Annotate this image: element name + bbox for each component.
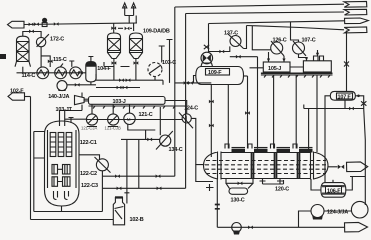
internals bed2 box [52, 165, 70, 175]
valve ticks downleg [215, 205, 220, 209]
vent arrow up 1 [123, 3, 127, 16]
valve column overhead [29, 30, 34, 34]
wire mid header y66 [104, 62, 130, 67]
wire 104-F bottom stub [90, 82, 92, 85]
wire bottle right vert [124, 139, 129, 203]
wire h-line y108.5 [304, 105, 364, 109]
wire 103-C stub [159, 46, 165, 63]
valve 137-C left [219, 50, 224, 54]
wire vent manifold [125, 16, 137, 24]
wire exch feed x296 [295, 75, 297, 149]
left head [204, 152, 222, 180]
column vessel top-left [17, 36, 30, 61]
wire right head outlet [328, 166, 338, 168]
svg-text:172-C: 172-C [50, 36, 64, 42]
nozzles box2 [314, 56, 324, 61]
wire exch feed x247 [247, 76, 249, 149]
compressor 103-J [89, 97, 166, 105]
turbine 103-JT [60, 93, 89, 111]
valves y188.3 [117, 187, 122, 191]
wire circle drops from 103-J [92, 104, 130, 114]
baffle 1 [252, 153, 254, 179]
wire line4 drop to 107-F [346, 31, 348, 92]
wire vert from line2 [185, 14, 187, 83]
arrow banner 4 [344, 27, 367, 33]
wire 104-F top stub [88, 57, 93, 62]
vent arrow up 2 [132, 3, 136, 16]
baseline hatch 103-J [89, 106, 186, 109]
exchanger 134-C [160, 135, 171, 146]
exchanger 107-C [293, 42, 305, 54]
wire pump left drop [299, 211, 312, 227]
wire feed 107-C [291, 22, 299, 42]
exchanger circle quench [96, 159, 108, 171]
wire 107-F bottom drop [344, 100, 346, 108]
pumpout circle [351, 201, 368, 218]
vessel 102-B bottle [113, 198, 124, 225]
exchanger 172-C [36, 37, 45, 46]
vessel 106-F [321, 183, 346, 198]
stub pipes on dome [69, 118, 74, 124]
arrow product top-left [8, 21, 25, 28]
wire vert x138 [138, 139, 140, 188]
top fin strip 1 [232, 148, 246, 153]
wire inlet pipes into dome [60, 111, 65, 127]
base bar 105-J [261, 72, 333, 74]
vessel 109-DA [108, 33, 121, 59]
wire h-line y82.9 [175, 82, 212, 84]
valve vessel A inlet [111, 26, 116, 30]
wire line y188.3 [102, 187, 185, 189]
wire right vert to pumpout circle [364, 109, 366, 206]
wire drop to vessel A [113, 23, 115, 33]
compressor 105-J box [263, 62, 290, 72]
vessel 104-F [86, 62, 96, 82]
vessel 109-F [196, 67, 244, 85]
compressor circle 121-CJA [86, 114, 97, 125]
wire shaft to dome [65, 118, 87, 120]
svg-text:137-C: 137-C [224, 30, 238, 36]
svg-text:102-B: 102-B [130, 217, 144, 223]
pump 140-J/JA [57, 81, 67, 91]
wire 124-C outlet to head loop [191, 118, 196, 164]
wire head bottom to 106-F [332, 180, 334, 183]
right head [311, 152, 329, 180]
leader 115-C [60, 64, 63, 67]
valve 140-J discharge [75, 83, 80, 87]
wire M bottom loop [128, 125, 156, 140]
wire 172-C down [40, 47, 42, 67]
wire exch left downleg [216, 180, 218, 228]
wire exch feed x211 [210, 85, 212, 158]
valve 109-DB outlet [134, 61, 139, 65]
valve X on 107-F feed [344, 62, 349, 67]
valve before 104-F [78, 71, 83, 75]
wire 107-C drops [299, 50, 318, 61]
wire 103-J suction [96, 87, 140, 89]
valve pair y82.9 [184, 81, 189, 85]
wire exch feed x228 [227, 85, 229, 149]
valve on header2 [126, 78, 131, 82]
wire v x308 down [308, 109, 310, 153]
tube bundle dashed [205, 161, 327, 174]
baffle 3 [298, 153, 300, 179]
wire bracket stubs [34, 132, 45, 159]
wire main top-left header [24, 23, 137, 25]
wire 137-C lower pipe [230, 56, 258, 58]
svg-text:134-C: 134-C [169, 147, 183, 153]
valve outlet [338, 165, 344, 169]
wire 109-DB outlet [135, 59, 137, 81]
svg-text:109-F: 109-F [208, 70, 222, 76]
wire 109-F left pipe [194, 76, 196, 83]
wire feed 126-C [252, 26, 270, 50]
vent stub above circle3 [69, 61, 74, 67]
top fin strip 3 [277, 148, 291, 153]
wire riser x103 [101, 171, 103, 212]
svg-text:130-C: 130-C [231, 197, 245, 203]
svg-text:106-F: 106-F [327, 188, 341, 194]
bracket 120-C [260, 179, 284, 185]
wire vert from line3 [208, 24, 210, 53]
svg-text:121-C: 121-C [139, 112, 153, 118]
wire vert 184 lower [185, 83, 187, 188]
control valve [42, 18, 47, 23]
exchanger 126-C [271, 42, 283, 54]
svg-text:103-JT: 103-JT [56, 107, 73, 113]
valve on x247 [245, 111, 250, 115]
wire exch feed x273 [273, 75, 275, 149]
vessel 107-F [330, 91, 355, 100]
wire to quench circle [79, 155, 100, 160]
drum 130-C [226, 183, 253, 188]
pump bottoms [232, 223, 242, 233]
exchanger train shell [221, 153, 311, 179]
arrow banner 2 [344, 9, 367, 15]
exchanger 124-C [182, 114, 191, 123]
internals bed3 box [52, 177, 70, 187]
inlet arrow left-edge [0, 54, 6, 59]
valve on header [119, 78, 124, 82]
valves y176.2 [115, 174, 120, 178]
svg-text:105-J: 105-J [268, 66, 281, 72]
wire line3 to arrow3 [209, 21, 345, 24]
top fin strip 2 [254, 148, 268, 153]
wire bottom line [217, 226, 344, 228]
svg-text:107 F: 107 F [338, 95, 352, 101]
wire bottle feed [31, 219, 114, 221]
vessel 109-DB [130, 33, 143, 59]
wire 103-C bottom [154, 77, 156, 81]
wire 137-C to line4 [244, 26, 247, 49]
svg-text:126-C: 126-C [273, 37, 287, 43]
baffle 2 [275, 153, 277, 179]
pump 124-J/JA [311, 205, 324, 218]
svg-text:109-DA/DB: 109-DA/DB [143, 28, 170, 34]
arrow bottoms right [345, 223, 368, 232]
turbine box2 [303, 61, 331, 72]
arrow pencil 3 [345, 18, 369, 24]
wire left downcomer2 [33, 132, 35, 212]
wire pump to circle [324, 210, 351, 212]
wire exch feed x317 [316, 75, 318, 152]
wire shaft 105-J [250, 66, 304, 69]
wire vert from line1 [174, 7, 176, 176]
svg-text:114-C: 114-C [22, 73, 36, 79]
wire 103-J right ext [165, 101, 187, 114]
exchanger 114-C circle1 [37, 67, 49, 79]
arrow banner 1 [344, 2, 367, 8]
svg-text:115-C: 115-C [53, 57, 67, 63]
valve on y108.5 [349, 107, 354, 111]
C-loop at left head [196, 165, 213, 182]
svg-text:107-C: 107-C [302, 37, 316, 43]
wire 121-C tick down to 134-C [159, 107, 161, 135]
svg-text:122-C1: 122-C1 [80, 140, 97, 146]
valve 137-C lower [236, 55, 241, 59]
valve bottoms [248, 226, 253, 230]
wire line2 to arrow2 [186, 12, 344, 14]
valve on x211 [209, 100, 214, 104]
valve 109-DA outlet [112, 61, 117, 65]
hatch under circles [87, 126, 118, 128]
wire 140-J discharge [67, 84, 96, 86]
wire converter bottom out [34, 206, 103, 212]
wire compressor shaft line [86, 119, 182, 121]
wire 102-F to downcomer [25, 96, 31, 98]
nozzle stubs shell top [225, 144, 297, 149]
svg-text:140-J/JA: 140-J/JA [48, 94, 69, 100]
valve suction [117, 86, 122, 90]
valve tick b [34, 22, 39, 26]
exchanger 137-C [230, 36, 241, 47]
exchanger 103-C dashed [148, 63, 162, 77]
pump on 109-F [201, 52, 213, 64]
internals bed1 hatched slots [50, 133, 72, 157]
valve vessel B inlet [125, 27, 130, 31]
motor M [124, 113, 135, 124]
valve tick 115 leg [48, 60, 53, 64]
wire T-stub vert [167, 40, 173, 83]
svg-text:122-C2: 122-C2 [80, 171, 97, 177]
wire line1 to arrow1 [175, 4, 344, 7]
wire left downcomer [30, 97, 32, 220]
valve tick c [54, 22, 59, 26]
wire 137-C left pipe [209, 46, 230, 51]
svg-text:120-C: 120-C [275, 187, 289, 193]
wire 106-F left elbow [311, 179, 321, 190]
wire branch to 115-C leg [41, 56, 50, 67]
wire 107-F left stub to head [325, 96, 330, 183]
wire column overhead [23, 32, 41, 38]
wire 107-F right out [355, 96, 363, 109]
exchanger circle2 [55, 67, 67, 79]
valve row dashes [118, 27, 132, 29]
bottom outlet bracket 130-C [226, 179, 253, 184]
label 109-F [206, 69, 230, 76]
wire exchanger row line [17, 72, 86, 74]
wire line4 to arrow4 [247, 26, 345, 30]
converter 122-C shell [45, 121, 80, 206]
valve tick a [29, 23, 34, 27]
arrow 102-F [8, 93, 25, 100]
bottom dome internals [54, 191, 69, 200]
svg-text:124-J/JA: 124-J/JA [327, 210, 348, 216]
wire 106-F right loop [346, 177, 366, 191]
svg-text:103-J: 103-J [113, 99, 126, 105]
compressor circle 121-CJB [108, 114, 119, 125]
wire column skirt to row [22, 67, 24, 73]
valve X right vert [361, 101, 366, 105]
stub under left head [206, 184, 214, 191]
wire 126-C drops with arrowheads [269, 52, 285, 62]
exchanger circle3 [70, 67, 82, 79]
wire valve line to 134-C [121, 138, 160, 140]
wire 109-DA outlet [113, 59, 115, 81]
top fin strip 4 [299, 148, 313, 153]
valve X on pump feed [204, 45, 209, 49]
wire drop to vessel B [133, 23, 135, 31]
arrow product right [347, 162, 368, 172]
wire line y176.2 [102, 175, 174, 177]
svg-text:122-C3: 122-C3 [81, 183, 98, 189]
wire cross header under dryers [96, 74, 163, 85]
wire exch feed x257 [257, 57, 259, 149]
inner basket walls [48, 130, 77, 188]
wire 109-F right to downcomer [244, 75, 248, 77]
